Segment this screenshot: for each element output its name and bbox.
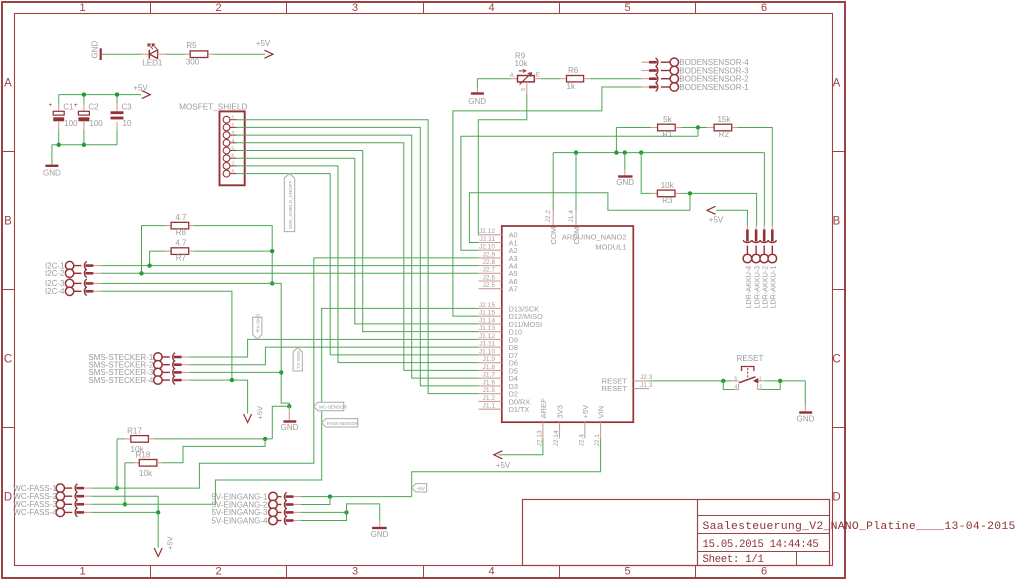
svg-text:J2.1: J2.1: [594, 434, 601, 447]
svg-text:3V3: 3V3: [556, 405, 565, 419]
svg-text:J2.8: J2.8: [483, 259, 496, 266]
svg-text:FASS-SENSOR: FASS-SENSOR: [327, 421, 360, 427]
svg-text:J1.11: J1.11: [479, 341, 495, 348]
svg-text:D: D: [4, 492, 12, 504]
svg-text:GND: GND: [797, 415, 815, 424]
svg-text:Sheet: 1/1: Sheet: 1/1: [703, 554, 764, 566]
svg-text:+5V: +5V: [417, 486, 426, 492]
svg-text:I2C-4: I2C-4: [45, 287, 65, 296]
svg-text:2: 2: [215, 2, 221, 14]
svg-text:+: +: [74, 102, 78, 109]
svg-text:1: 1: [231, 116, 234, 122]
svg-text:J2.10: J2.10: [479, 244, 495, 251]
svg-text:6: 6: [761, 2, 767, 14]
svg-text:10k: 10k: [139, 469, 153, 478]
svg-text:+5V: +5V: [255, 406, 264, 420]
svg-text:+5V: +5V: [709, 215, 724, 224]
svg-text:GND: GND: [91, 41, 100, 59]
svg-text:COM: COM: [572, 227, 581, 245]
svg-text:A: A: [4, 78, 12, 90]
svg-text:J1.3: J1.3: [640, 382, 653, 389]
svg-text:+5V: +5V: [581, 404, 590, 419]
svg-text:MOSFET_SHIELD: MOSFET_SHIELD: [179, 102, 247, 111]
svg-text:J1.14: J1.14: [479, 317, 495, 324]
svg-text:10k: 10k: [661, 181, 675, 190]
svg-text:C: C: [4, 354, 12, 366]
svg-text:J2.4: J2.4: [578, 434, 585, 447]
svg-text:1: 1: [79, 566, 85, 578]
svg-text:2: 2: [759, 385, 762, 391]
svg-text:S: S: [521, 87, 527, 91]
svg-text:RESET: RESET: [602, 384, 628, 393]
svg-text:10: 10: [123, 119, 132, 128]
svg-text:8: 8: [231, 169, 234, 175]
svg-text:GND: GND: [616, 178, 634, 187]
svg-text:5: 5: [624, 566, 630, 578]
svg-text:C3: C3: [122, 103, 133, 112]
svg-text:J1.1: J1.1: [483, 403, 496, 410]
svg-text:J1.7: J1.7: [483, 372, 496, 379]
svg-text:GND: GND: [371, 530, 389, 539]
svg-text:4.7: 4.7: [175, 239, 187, 248]
svg-text:2: 2: [231, 123, 234, 129]
svg-text:AREF: AREF: [539, 398, 548, 419]
svg-text:B: B: [833, 216, 841, 228]
svg-text:COM: COM: [549, 227, 558, 245]
svg-text:3: 3: [231, 131, 234, 137]
svg-text:I2C-2: I2C-2: [45, 269, 65, 278]
svg-text:+5V: +5V: [165, 536, 174, 550]
svg-text:WC-FASS-4: WC-FASS-4: [13, 508, 57, 517]
svg-text:SMS-STECKER-4: SMS-STECKER-4: [88, 376, 153, 385]
svg-text:2: 2: [215, 566, 221, 578]
svg-text:J1.10: J1.10: [479, 348, 495, 355]
svg-text:R1: R1: [662, 130, 673, 139]
svg-text:J2.12: J2.12: [479, 228, 495, 235]
svg-text:J2.15: J2.15: [479, 302, 495, 309]
svg-text:3: 3: [352, 566, 358, 578]
svg-text:J2.9: J2.9: [483, 251, 496, 258]
svg-text:SMS_SHIELD_AN/OFF: SMS_SHIELD_AN/OFF: [288, 180, 293, 229]
svg-text:VIN: VIN: [597, 406, 606, 419]
svg-text:5: 5: [624, 2, 630, 14]
svg-text:A: A: [833, 78, 841, 90]
svg-text:4: 4: [488, 2, 494, 14]
svg-text:D: D: [832, 492, 840, 504]
svg-text:J1.9: J1.9: [483, 356, 496, 363]
svg-text:J1.12: J1.12: [479, 333, 495, 340]
svg-text:RX-SMS: RX-SMS: [256, 314, 262, 333]
svg-text:J1.15: J1.15: [479, 310, 495, 317]
svg-text:C: C: [832, 354, 840, 366]
svg-text:7: 7: [231, 162, 234, 168]
svg-text:6: 6: [231, 154, 234, 160]
svg-text:10k: 10k: [515, 59, 529, 68]
svg-text:R18: R18: [136, 450, 151, 459]
svg-text:J1.8: J1.8: [483, 364, 496, 371]
svg-text:4: 4: [231, 139, 234, 145]
svg-text:100: 100: [64, 119, 78, 128]
svg-text:J1.4: J1.4: [568, 210, 575, 223]
svg-text:J1.5: J1.5: [483, 387, 496, 394]
svg-text:4: 4: [734, 385, 737, 391]
svg-text:MODUL1: MODUL1: [595, 243, 626, 252]
svg-text:GND: GND: [43, 168, 61, 177]
svg-text:5: 5: [231, 146, 234, 152]
svg-text:B: B: [4, 216, 12, 228]
svg-text:TX-SMS: TX-SMS: [296, 351, 302, 369]
svg-text:3: 3: [352, 2, 358, 14]
svg-text:J2.13: J2.13: [536, 430, 543, 446]
svg-text:A7: A7: [509, 285, 518, 294]
svg-text:J1.2: J1.2: [483, 395, 496, 402]
svg-text:1: 1: [79, 2, 85, 14]
svg-text:J2.7: J2.7: [483, 267, 496, 274]
svg-text:GND: GND: [468, 97, 486, 106]
svg-text:D1/TX: D1/TX: [509, 405, 530, 414]
svg-text:J2.2: J2.2: [545, 210, 552, 223]
svg-text:C1: C1: [63, 103, 74, 112]
svg-text:J2.6: J2.6: [483, 274, 496, 281]
svg-text:C2: C2: [88, 103, 99, 112]
svg-text:1k: 1k: [567, 82, 576, 91]
svg-text:LDR-AKKU-1: LDR-AKKU-1: [769, 266, 778, 309]
svg-text:15k: 15k: [717, 115, 731, 124]
svg-text:15.05.2015 14:44:45: 15.05.2015 14:44:45: [703, 539, 819, 551]
svg-text:LED1: LED1: [142, 58, 163, 67]
svg-text:R3: R3: [662, 196, 673, 205]
svg-text:RESET: RESET: [737, 354, 764, 363]
svg-text:J2.3: J2.3: [640, 374, 653, 381]
svg-text:LDR-AKKU-4: LDR-AKKU-4: [744, 266, 753, 309]
svg-text:4: 4: [488, 566, 494, 578]
svg-text:A: A: [510, 72, 515, 79]
svg-text:+5V: +5V: [496, 461, 511, 470]
svg-text:R8: R8: [176, 228, 187, 237]
svg-text:6: 6: [761, 566, 767, 578]
svg-text:Saalesteuerung_V2_NANO_Platine: Saalesteuerung_V2_NANO_Platine____13-04-…: [703, 521, 1016, 533]
svg-text:R6: R6: [568, 66, 579, 75]
svg-text:GND: GND: [281, 423, 299, 432]
svg-text:+: +: [49, 102, 53, 109]
svg-text:J1.6: J1.6: [483, 379, 496, 386]
svg-text:3: 3: [734, 376, 737, 382]
svg-text:R5: R5: [186, 41, 197, 50]
svg-text:5V-EINGANG-4: 5V-EINGANG-4: [211, 516, 268, 525]
svg-text:4.7: 4.7: [175, 213, 187, 222]
svg-text:J1.13: J1.13: [479, 325, 495, 332]
svg-text:100: 100: [89, 119, 103, 128]
svg-text:300: 300: [186, 57, 200, 66]
svg-text:R2: R2: [719, 130, 730, 139]
svg-text:WC-SENSOR: WC-SENSOR: [319, 405, 348, 411]
svg-text:5k: 5k: [663, 115, 672, 124]
svg-text:BODENSENSOR-1: BODENSENSOR-1: [679, 83, 749, 92]
svg-text:R17: R17: [127, 427, 142, 436]
svg-text:+5V: +5V: [133, 83, 148, 92]
svg-text:J2.5: J2.5: [483, 282, 496, 289]
svg-text:E: E: [536, 72, 541, 79]
svg-text:R7: R7: [176, 254, 187, 263]
svg-text:J2.11: J2.11: [479, 236, 495, 243]
svg-text:J2.14: J2.14: [553, 430, 560, 446]
svg-text:+5V: +5V: [256, 39, 271, 48]
svg-text:1: 1: [759, 376, 762, 382]
